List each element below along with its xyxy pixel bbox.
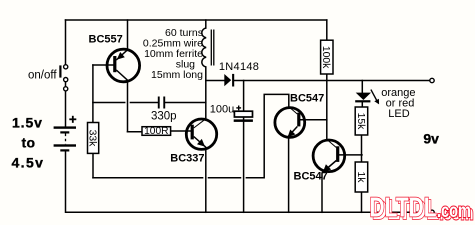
svg-text:33k: 33k	[86, 130, 97, 148]
svg-text:330p: 330p	[151, 110, 177, 122]
svg-text:BC547: BC547	[294, 171, 328, 183]
svg-text:BC557: BC557	[89, 34, 123, 46]
svg-text:BC337: BC337	[170, 153, 204, 165]
svg-text:15mm long: 15mm long	[151, 69, 203, 81]
svg-text:on/off: on/off	[28, 70, 57, 82]
svg-text:100u: 100u	[210, 104, 234, 116]
svg-text:BC547: BC547	[290, 92, 324, 104]
svg-text:1.5v: 1.5v	[12, 115, 43, 131]
svg-text:100R: 100R	[144, 126, 168, 137]
svg-text:9v: 9v	[423, 131, 439, 147]
svg-text:100k: 100k	[320, 46, 331, 69]
svg-text:LED: LED	[388, 108, 409, 120]
svg-text:4.5v: 4.5v	[12, 155, 45, 171]
svg-text:DLTDL: DLTDL	[370, 192, 437, 223]
svg-text:1k: 1k	[355, 172, 366, 184]
svg-text:15k: 15k	[355, 113, 366, 131]
svg-text:.com: .com	[437, 200, 471, 222]
svg-text:1N4148: 1N4148	[219, 61, 259, 73]
svg-text:to: to	[22, 135, 36, 151]
